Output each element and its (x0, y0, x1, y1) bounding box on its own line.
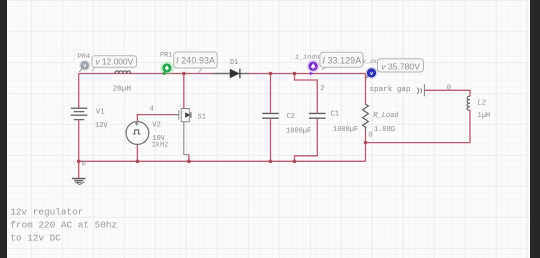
junction S1 source bottom (187, 160, 191, 164)
svg-text:from 220 AC at 50hz: from 220 AC at 50hz (10, 219, 117, 230)
diode D1 (213, 73, 249, 75)
svg-text:v: v (370, 71, 373, 77)
right black bar (530, 0, 540, 258)
junction top of C2 (269, 72, 273, 76)
svg-text:V: V (83, 64, 87, 70)
junction top of S1 drain (182, 72, 186, 76)
probe v_out value box (378, 59, 424, 72)
wire left column V1 (78, 74, 80, 162)
wire S1 source to ground rail (184, 122, 189, 155)
svg-text:L2: L2 (478, 99, 486, 107)
svg-text:V2: V2 (152, 122, 160, 130)
svg-text:20µH: 20µH (113, 85, 131, 93)
junction C1 bottom step (293, 160, 297, 164)
wire V2 column (136, 115, 138, 162)
svg-text:I 33.129A: I 33.129A (322, 55, 361, 65)
svg-text:v 35.780V: v 35.780V (381, 61, 420, 71)
svg-text:12V: 12V (95, 122, 108, 130)
probe PR1 (160, 61, 174, 75)
wire S1 drain (183, 74, 185, 109)
svg-text:I 240.93A: I 240.93A (176, 55, 215, 65)
transistor S1 (174, 109, 189, 122)
source V2 (126, 122, 149, 145)
wire gate net 4 (137, 114, 179, 116)
svg-text:spark gap: spark gap (370, 86, 411, 94)
ground (72, 179, 86, 185)
svg-text:0: 0 (82, 161, 86, 169)
inductor L1 (115, 71, 131, 74)
svg-text:12v regulator: 12v regulator (10, 206, 83, 217)
svg-text:v 12.000V: v 12.000V (95, 57, 133, 67)
svg-text:C1: C1 (331, 110, 339, 118)
svg-text:R_Load: R_Load (373, 112, 399, 120)
svg-text:PR4: PR4 (78, 53, 90, 61)
probe PR1 value box (174, 52, 217, 73)
svg-text:to 12v DC: to 12v DC (10, 232, 61, 243)
junction bottom left ground (77, 160, 81, 164)
svg-text:1.08Ω: 1.08Ω (374, 126, 395, 134)
wire bottom ground rail (79, 160, 366, 162)
svg-text:0: 0 (368, 132, 372, 140)
wire secondary loop to L2 (366, 90, 471, 142)
wire R_Load column (365, 74, 367, 162)
svg-text:4: 4 (150, 106, 155, 114)
junction top of C1 step (293, 72, 297, 76)
junction R_Load loop branch (364, 141, 368, 145)
battery V1 (71, 108, 88, 119)
svg-text:2: 2 (320, 85, 324, 93)
capacitor C1 (309, 113, 326, 118)
capacitor C2 (262, 113, 279, 118)
svg-text:D1: D1 (230, 59, 238, 67)
svg-text:C2: C2 (287, 113, 295, 121)
wire top rail net out (79, 73, 366, 75)
svg-text:0: 0 (447, 84, 451, 92)
wire C1 branch net 2 (295, 74, 318, 162)
S1 body diode (185, 112, 190, 117)
wire ground stub (78, 161, 80, 178)
junction C2 bottom (269, 160, 273, 164)
junction V2 bottom (136, 160, 140, 164)
svg-text:1kHz: 1kHz (152, 142, 169, 150)
left black bar (0, 0, 7, 258)
annotation text (10, 206, 117, 243)
probe i_inductor value box (320, 52, 363, 70)
probe PR4 (79, 68, 82, 72)
svg-text:1000µF: 1000µF (333, 126, 358, 134)
spark gap (417, 84, 424, 96)
svg-text:S1: S1 (198, 113, 206, 121)
svg-text:1µH: 1µH (478, 112, 491, 120)
svg-text:V1: V1 (96, 109, 104, 117)
svg-text:1000µF: 1000µF (286, 127, 311, 135)
wire C2 branch (270, 74, 272, 162)
probe PR4 value box (92, 56, 137, 72)
resistor R_Load (363, 103, 369, 131)
inductor L2 (467, 96, 470, 110)
svg-text:PR1: PR1 (160, 51, 172, 59)
